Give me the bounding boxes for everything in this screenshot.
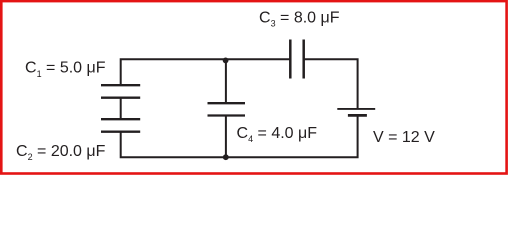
wire: from C3 right plate to top-right corner down to battery long plate xyxy=(304,59,358,109)
wire: between C1 and C2 xyxy=(120,98,122,120)
battery V short plate xyxy=(348,114,367,117)
wire: top rail from C1 top plate up through top-left corner to C3 left plate xyxy=(121,59,290,86)
wire: C4 branch from C4 bottom plate down to bottom junction xyxy=(225,116,227,158)
node junction dot bottom xyxy=(223,154,229,160)
capacitor C1 xyxy=(101,85,140,98)
node junction dot top xyxy=(223,58,229,64)
wire: from C2 bottom plate through bottom-left corner, bottom rail, bottom-right corner up to battery short plate xyxy=(121,115,358,157)
wire: C4 branch from top junction down to C4 top plate xyxy=(225,59,227,103)
svg-text:V = 12 V: V = 12 V xyxy=(373,129,435,146)
battery V long plate xyxy=(337,108,375,110)
red border frame xyxy=(1,1,506,173)
capacitor C3 xyxy=(290,40,303,79)
capacitor C2 xyxy=(101,119,140,132)
capacitor C4 xyxy=(208,103,246,115)
